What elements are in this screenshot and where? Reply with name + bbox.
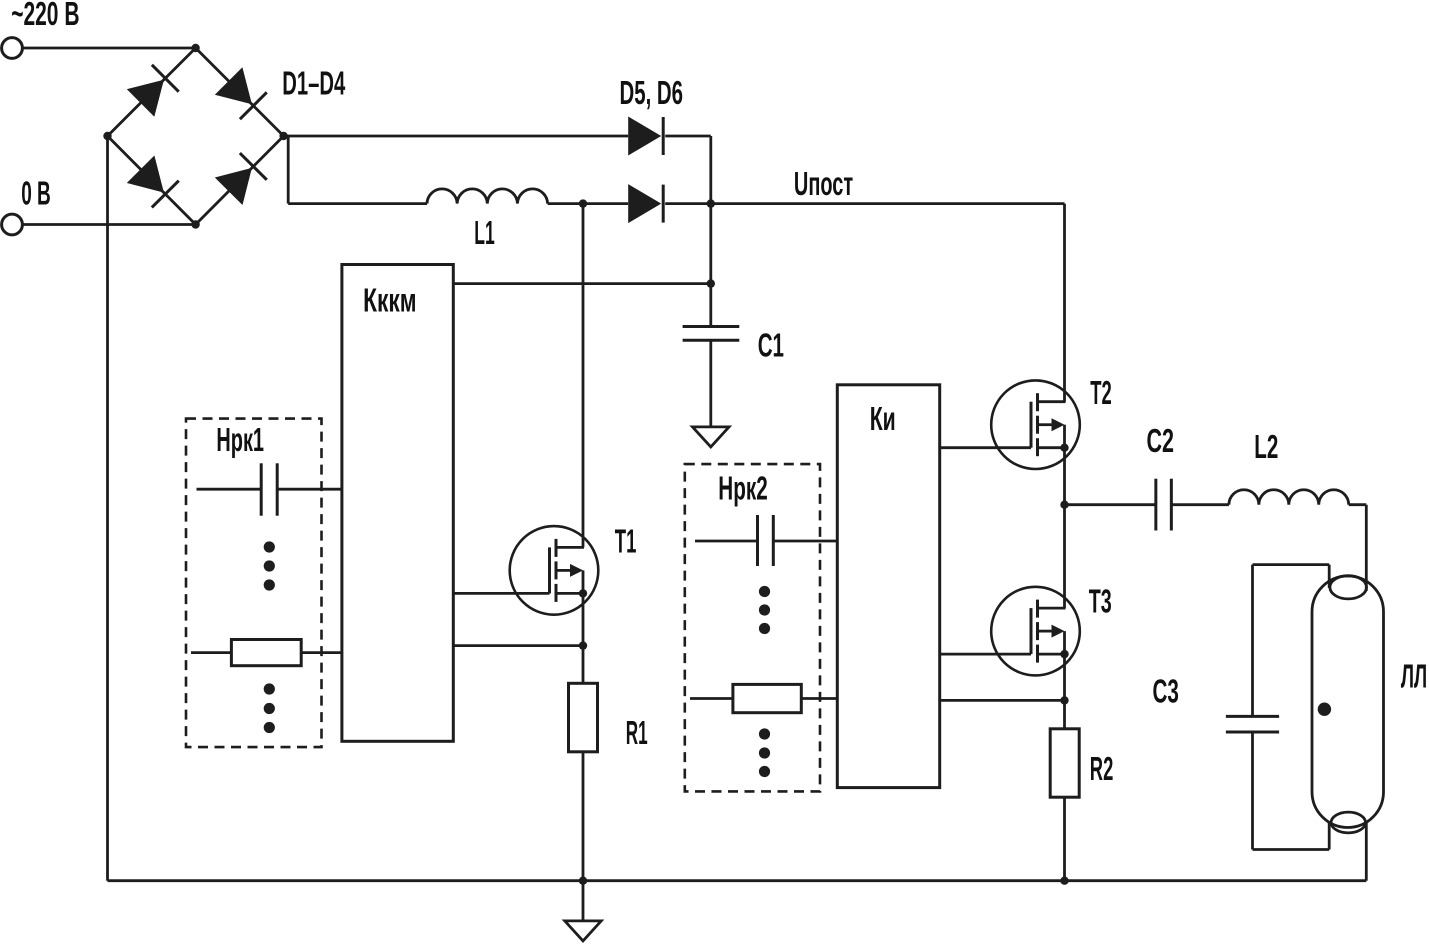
diode D6 — [628, 184, 661, 223]
dots chain Нрк2 upper — [759, 586, 770, 597]
wire Uпост rail down to T2 drain — [1063, 204, 1066, 402]
diode D4 (bridge bottom-right) — [215, 168, 252, 205]
transistor T3 channel dashes — [1036, 600, 1039, 618]
svg-text:T2: T2 — [1090, 374, 1112, 411]
wire D5 cathode to corner — [665, 135, 711, 138]
transistor T3 source contact — [1038, 653, 1065, 656]
lamp top electrode (filament ellipse) — [1330, 576, 1367, 599]
node bridge top — [191, 44, 199, 52]
svg-text:C2: C2 — [1147, 422, 1175, 459]
transistor T3 body contact with arrow — [1038, 630, 1054, 633]
wire Кккм output to C1 branch — [453, 282, 711, 285]
ground main (open arrow) — [565, 921, 601, 941]
svg-text:L2: L2 — [1254, 428, 1278, 465]
wire C1 bottom lead — [709, 340, 712, 427]
node bottom rail R1 — [579, 877, 587, 885]
wire T3 source down — [1063, 654, 1066, 700]
transistor T1 source contact — [556, 592, 583, 595]
wire Кккм gate drive to T1 — [453, 592, 549, 595]
wire bridge+ to D5 — [284, 135, 629, 138]
node bridge bottom — [191, 220, 199, 228]
dots chain Нрк1 upper — [264, 541, 275, 552]
lamp bottom electrode (filament ellipse) — [1331, 812, 1365, 833]
wire jog to L1 — [288, 202, 427, 205]
resistor in Нрк2 — [733, 684, 801, 712]
node T3 source sense — [1060, 696, 1068, 704]
dots chain Нрк1 lower — [264, 683, 275, 694]
wire C3 branch lower — [1251, 732, 1254, 850]
transistor T2 channel dashes — [1036, 393, 1039, 411]
wire L2 to lamp corner — [1349, 503, 1367, 506]
svg-text:ЛЛ: ЛЛ — [1401, 658, 1427, 695]
svg-text:R2: R2 — [1090, 750, 1114, 787]
wire to R2 — [1063, 700, 1066, 728]
wire lamp top horizontal to C3 branch — [1253, 563, 1330, 566]
svg-text:0 В: 0 В — [21, 175, 51, 212]
wire lamp top-left lead — [1328, 565, 1331, 588]
svg-text:C1: C1 — [758, 326, 784, 363]
transistor T2 drain contact — [1038, 400, 1066, 403]
transistor T2 source contact — [1038, 446, 1065, 449]
block Ки (inverter controller) — [837, 385, 939, 788]
node T1 source sense — [579, 641, 587, 649]
wire down to lamp top electrode — [1365, 505, 1368, 591]
terminal ~220V — [2, 38, 23, 59]
svg-text:L1: L1 — [474, 214, 495, 251]
wire T3 drain vertical — [1063, 505, 1066, 608]
svg-text:R1: R1 — [626, 714, 648, 751]
wire node down to C1 branch node — [709, 204, 712, 284]
block Кккм (PFC controller) — [342, 265, 453, 742]
diode D1 (bridge left-top) — [127, 80, 164, 117]
svg-text:T3: T3 — [1089, 583, 1112, 620]
svg-text:Нрк2: Нрк2 — [718, 469, 767, 506]
wire Ки gate drive to T3 — [940, 653, 1031, 656]
wire Ки sense line to T3 source — [940, 699, 1065, 702]
transistor T3 drain contact — [1038, 607, 1066, 610]
wire 220V feed — [22, 47, 195, 50]
wire D6 to Uпост rail — [665, 202, 1064, 205]
wire C2 to L2 — [1171, 503, 1229, 506]
wire Нрк2 capacitor to Ки — [773, 540, 837, 543]
svg-text:D1–D4: D1–D4 — [282, 65, 345, 102]
transistor T2 body contact with arrow — [1038, 423, 1054, 426]
wire R1 to bottom rail — [582, 752, 585, 881]
wire lamp bottom-right lead to bottom rail — [1365, 823, 1368, 881]
capacitor in Нрк1 — [260, 463, 263, 515]
transistor T1 channel dashes — [555, 539, 558, 557]
wire Кккм sense line — [453, 644, 583, 647]
wire Нрк2 capacitor left stub — [695, 540, 757, 543]
svg-text:Нрк1: Нрк1 — [216, 421, 264, 458]
box Нрк1 (dashed) — [186, 419, 322, 747]
wire T1 drain vertical — [582, 204, 585, 548]
box Нрк2 (dashed) — [685, 464, 820, 791]
svg-text:T1: T1 — [615, 523, 637, 560]
inductor L1 — [427, 189, 548, 204]
terminal 0V — [2, 214, 23, 235]
dots chain Нрк2 lower — [759, 728, 770, 739]
wire C1 top lead — [709, 284, 712, 327]
wire T1 source down — [582, 593, 585, 645]
wire Нрк1 resistor left stub — [191, 651, 231, 654]
resistor in Нрк1 — [231, 640, 301, 666]
diode D3 (bridge left-bottom) — [127, 156, 164, 193]
wire T2 source to half-bridge node — [1063, 448, 1066, 505]
wire C3 branch upper — [1251, 565, 1254, 717]
node C1 branch — [707, 279, 715, 287]
wire bridge edge bottom-right — [196, 136, 284, 225]
node half-bridge midpoint — [1060, 501, 1068, 509]
wire ground stub — [582, 881, 585, 921]
wire bridge edge top-right — [196, 48, 284, 136]
wire bridge+ jog down — [287, 136, 290, 204]
inductor L2 — [1229, 490, 1349, 505]
wire half-bridge node to C2 — [1065, 503, 1156, 506]
diode D2 (bridge top-right) — [215, 67, 252, 104]
node Uпост junction — [707, 199, 715, 207]
wire bridge edge left-bottom — [108, 136, 196, 225]
svg-text:D5, D6: D5, D6 — [620, 74, 684, 111]
wire to R1 — [582, 646, 585, 684]
wire lamp bottom-left lead — [1328, 821, 1331, 850]
wire Ки gate drive to T2 — [940, 446, 1031, 449]
wire R2 to bottom rail — [1063, 797, 1066, 881]
node bridge left — [103, 132, 111, 140]
wire Нрк1 resistor to Кккм — [301, 651, 342, 654]
resistor R2 — [1050, 729, 1079, 797]
transistor T2 gate bar — [1030, 402, 1033, 448]
svg-text:C3: C3 — [1153, 673, 1179, 710]
wire bridge edge left-top — [108, 48, 196, 136]
transistor T3 gate bar — [1030, 608, 1033, 654]
wire Нрк2 resistor to Ки — [801, 697, 837, 700]
transistor T2 body circle — [991, 380, 1080, 469]
capacitor in Нрк2 — [756, 515, 759, 566]
lamp centre dot — [1318, 703, 1331, 716]
capacitor C3 — [1226, 715, 1279, 718]
diode D5 — [628, 117, 661, 156]
svg-text:Кккм: Кккм — [363, 282, 416, 319]
transistor T1 drain contact — [556, 546, 584, 549]
transistor T1 body circle — [510, 526, 599, 615]
wire Нрк1 capacitor to Кккм — [277, 488, 342, 491]
node bridge right — [279, 132, 287, 140]
wire Нрк1 capacitor left stub — [197, 488, 262, 491]
capacitor C2 — [1154, 479, 1157, 531]
svg-text:Ки: Ки — [870, 400, 896, 437]
svg-text:~220 В: ~220 В — [11, 0, 79, 32]
wire L1 to D6 — [548, 202, 629, 205]
transistor T1 gate bar — [548, 547, 551, 593]
node bottom rail R2 — [1060, 877, 1068, 885]
resistor R1 — [569, 683, 598, 752]
node L1-D6 / T1 drain branch — [579, 199, 587, 207]
wire Нрк2 resistor left stub — [690, 697, 733, 700]
wire 0V feed — [22, 223, 195, 226]
transistor T1 body contact with arrow — [556, 569, 572, 572]
wire lamp bottom horizontal from C3 branch — [1253, 848, 1330, 851]
lamp ЛЛ envelope (capsule) — [1312, 576, 1384, 828]
capacitor C1 — [683, 325, 740, 328]
wire bottom rail — [108, 879, 1367, 882]
wire corner down to Uпост node — [709, 136, 712, 204]
wire left vertical to bottom rail — [106, 136, 109, 881]
svg-text:Uпост: Uпост — [794, 165, 853, 202]
transistor T3 body circle — [991, 587, 1080, 676]
ground C1 (open arrow) — [693, 427, 730, 447]
